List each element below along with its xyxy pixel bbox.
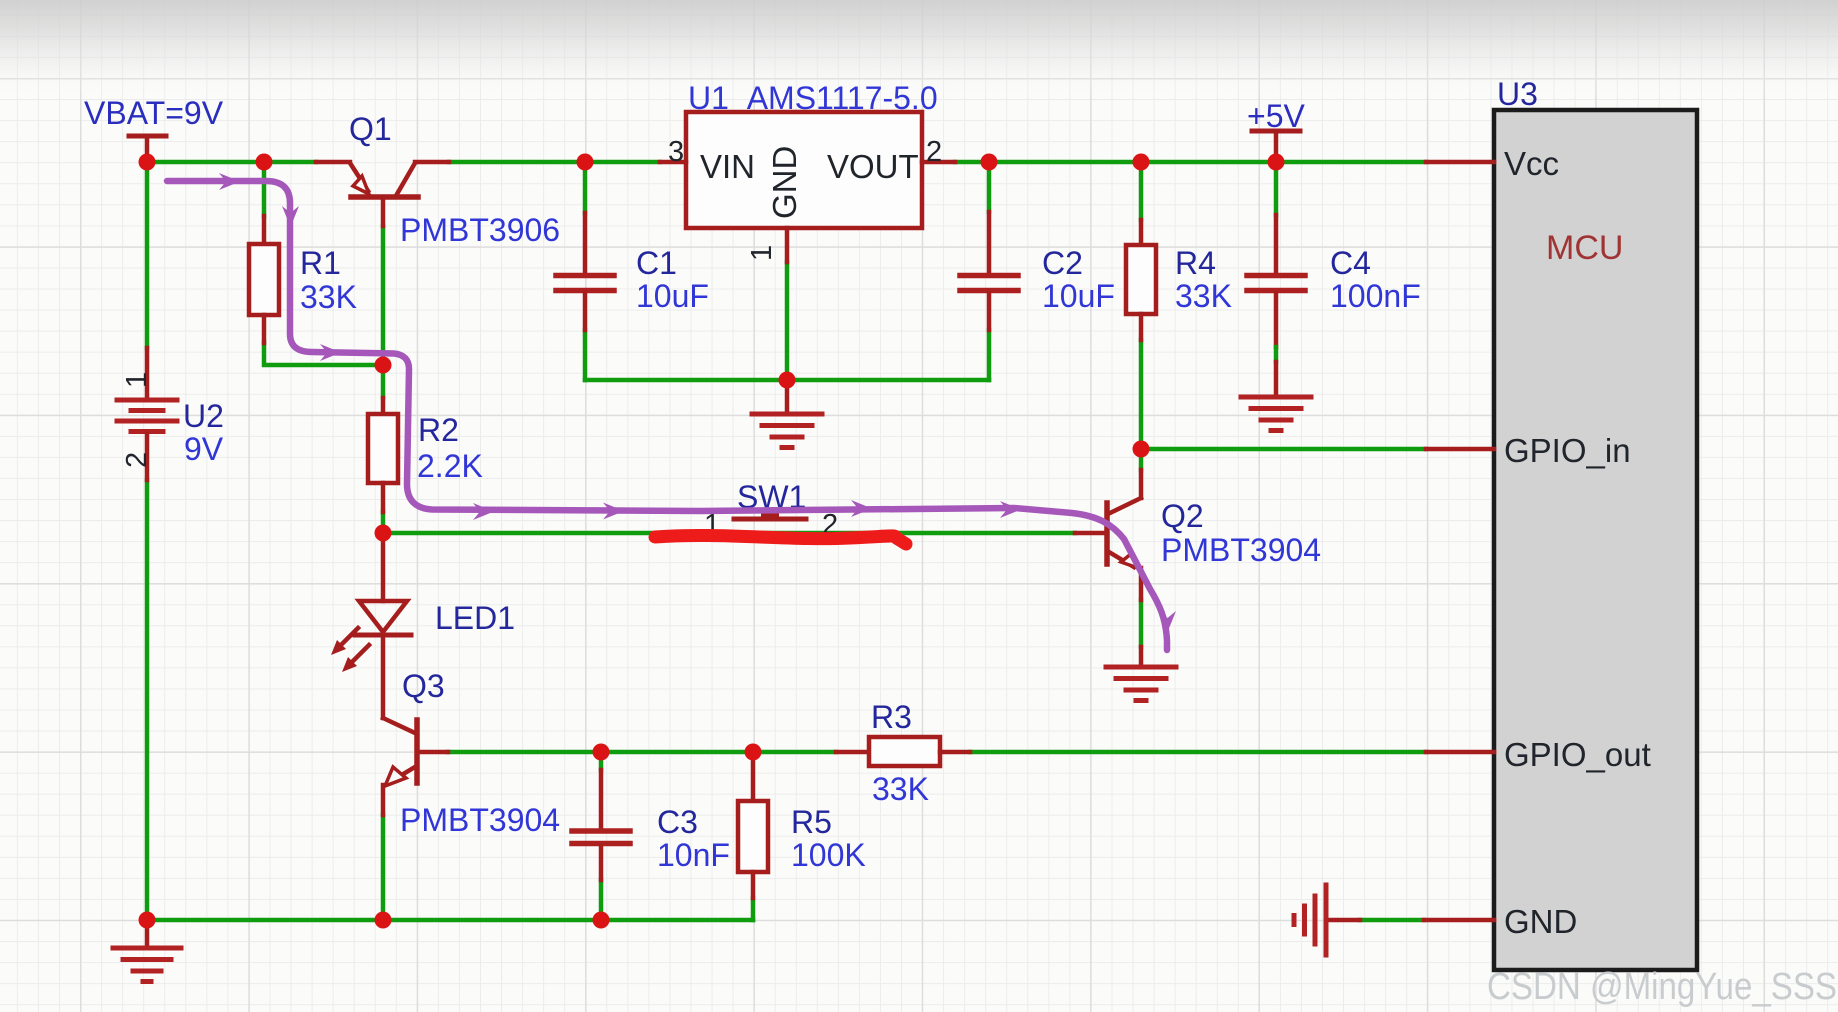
MCU U3 box xyxy=(1494,110,1697,970)
junction R5 top xyxy=(745,744,762,761)
pin GPIO_in stub xyxy=(1426,447,1494,452)
svg-text:GND: GND xyxy=(766,146,803,219)
svg-text:CSDN @MingYue_SSS: CSDN @MingYue_SSS xyxy=(1487,966,1837,1008)
junction +5V xyxy=(1268,154,1285,171)
svg-text:9V: 9V xyxy=(184,431,224,467)
svg-text:R2: R2 xyxy=(418,412,459,448)
svg-text:1: 1 xyxy=(121,372,153,388)
svg-text:10uF: 10uF xyxy=(1042,278,1115,314)
power symbol +5V bar xyxy=(1252,131,1300,160)
svg-text:33K: 33K xyxy=(1175,278,1232,314)
junction Q3 emitter rail xyxy=(375,912,392,929)
svg-text:R1: R1 xyxy=(300,245,341,281)
wire Q2 collector top xyxy=(1139,449,1144,470)
svg-text:2.2K: 2.2K xyxy=(417,448,483,484)
wire R1 bottom L to node A xyxy=(264,343,383,365)
svg-text:C2: C2 xyxy=(1042,245,1083,281)
purple arrowhead 2 xyxy=(282,206,299,227)
svg-text:3: 3 xyxy=(668,136,684,168)
wire MCU GND to ground xyxy=(1360,918,1424,923)
pin Vcc stub xyxy=(1426,160,1494,165)
junction R1 top xyxy=(256,154,273,171)
wire Q1 collector to VIN node xyxy=(449,160,660,165)
svg-text:C3: C3 xyxy=(657,804,698,840)
switch SW1 xyxy=(734,512,806,519)
wire SW1 net node B to Q2 base xyxy=(383,531,1075,536)
ground under U1 xyxy=(752,380,822,448)
pin GND stub xyxy=(1424,918,1494,923)
wire VBAT top rail left xyxy=(147,160,316,165)
junction C2 top xyxy=(981,154,998,171)
wire Q2 emitter mid xyxy=(1139,600,1144,647)
purple arrowhead 3 xyxy=(320,344,341,361)
resistor R1 xyxy=(249,216,279,343)
svg-text:VIN: VIN xyxy=(700,148,755,185)
svg-text:10nF: 10nF xyxy=(657,837,730,873)
junction C3 bottom xyxy=(593,912,610,929)
transistor Q3 PMBT3904 xyxy=(383,718,448,815)
resistor R2 xyxy=(368,398,398,512)
purple arrowhead 4 xyxy=(473,503,494,520)
purple annotation current path xyxy=(167,181,1167,650)
junction U1 gnd xyxy=(779,372,796,389)
junction C1 top xyxy=(577,154,594,171)
purple arrowhead 6 xyxy=(851,500,872,517)
purple arrowhead 1 xyxy=(219,173,240,190)
wire R4 top xyxy=(1139,162,1144,220)
wire C2 top xyxy=(987,162,992,212)
svg-text:+5V: +5V xyxy=(1247,98,1305,134)
junction node A xyxy=(375,357,392,374)
svg-text:2: 2 xyxy=(121,452,153,468)
svg-text:R5: R5 xyxy=(791,804,832,840)
wire C1 top xyxy=(583,162,588,213)
ground at MCU GND rotated xyxy=(1294,885,1360,955)
resistor R3 xyxy=(836,737,970,766)
wire C4 top xyxy=(1274,162,1279,215)
svg-text:Q2: Q2 xyxy=(1161,498,1204,534)
svg-text:GND: GND xyxy=(1504,903,1577,940)
svg-text:Q3: Q3 xyxy=(402,668,445,704)
transistor Q1 PMBT3906 xyxy=(316,162,449,226)
svg-text:2: 2 xyxy=(926,136,942,168)
wire node C to GPIO_in pin xyxy=(1141,447,1426,452)
svg-text:MCU: MCU xyxy=(1546,229,1623,267)
svg-text:U1 AMS1117-5.0: U1 AMS1117-5.0 xyxy=(688,80,938,116)
wire R4 bottom to node C xyxy=(1139,340,1144,449)
wire R1 top xyxy=(262,162,267,216)
wire R2 bottom to node B xyxy=(381,512,386,533)
svg-text:VOUT: VOUT xyxy=(827,148,919,185)
wire C3 top xyxy=(599,752,604,770)
wire C3 bottom xyxy=(599,880,604,920)
wire GPIO_out net left xyxy=(448,750,836,755)
svg-text:33K: 33K xyxy=(300,279,357,315)
svg-text:PMBT3904: PMBT3904 xyxy=(400,802,560,838)
svg-text:GPIO_in: GPIO_in xyxy=(1504,432,1631,469)
svg-text:PMBT3904: PMBT3904 xyxy=(1161,532,1321,568)
junction R4 top xyxy=(1133,154,1150,171)
resistor R4 xyxy=(1126,220,1156,340)
wire Q1 base down to node A xyxy=(381,226,386,365)
wire Q3 emitter to bottom rail xyxy=(381,815,386,920)
ground bottom left xyxy=(113,920,181,982)
pin GPIO_out stub xyxy=(1426,750,1494,755)
power symbol VBAT bar xyxy=(129,136,166,160)
svg-text:C1: C1 xyxy=(636,245,677,281)
ground under Q2 xyxy=(1106,667,1176,701)
resistor R5 xyxy=(738,752,768,898)
wire R5 bottom to rail xyxy=(751,898,756,920)
capacitor C4 xyxy=(1247,215,1305,394)
capacitor C1 xyxy=(556,213,614,330)
LED LED1 xyxy=(331,536,411,718)
capacitor C2 xyxy=(960,212,1018,330)
svg-text:100K: 100K xyxy=(791,837,866,873)
purple arrowhead 7 xyxy=(1000,501,1021,518)
svg-text:VBAT=9V: VBAT=9V xyxy=(84,95,224,131)
regulator U1 AMS1117 box xyxy=(660,112,955,262)
svg-text:1: 1 xyxy=(746,245,778,261)
svg-text:10uF: 10uF xyxy=(636,278,709,314)
svg-text:100nF: 100nF xyxy=(1330,278,1421,314)
wire bottom ground rail xyxy=(147,918,753,923)
svg-text:PMBT3906: PMBT3906 xyxy=(400,212,560,248)
svg-text:Q1: Q1 xyxy=(349,111,392,147)
wire C2 bottom xyxy=(987,330,992,380)
purple arrowhead 8 xyxy=(1159,611,1176,632)
wire C1 bottom xyxy=(583,330,588,380)
battery U2 xyxy=(117,348,177,480)
wire left rail lower xyxy=(145,480,150,920)
purple arrowhead 5 xyxy=(603,503,624,520)
svg-text:33K: 33K xyxy=(872,771,929,807)
wire left rail upper xyxy=(145,162,150,348)
ground under C4 xyxy=(1241,397,1311,431)
junction VBAT xyxy=(139,154,156,171)
wire U1 pin1 down xyxy=(785,262,790,380)
junction node B xyxy=(375,525,392,542)
svg-text:U2: U2 xyxy=(183,398,224,434)
svg-text:U3: U3 xyxy=(1497,76,1538,112)
svg-text:R3: R3 xyxy=(871,699,912,735)
wire R2 top xyxy=(381,365,386,398)
junction C3 top xyxy=(593,744,610,761)
svg-text:R4: R4 xyxy=(1175,245,1216,281)
svg-text:LED1: LED1 xyxy=(435,600,515,636)
svg-text:GPIO_out: GPIO_out xyxy=(1504,736,1651,773)
wire U1 ground rail xyxy=(585,378,989,383)
junction node C xyxy=(1133,441,1150,458)
wire R3 to GPIO_out pin xyxy=(970,750,1426,755)
svg-text:C4: C4 xyxy=(1330,245,1371,281)
svg-text:Vcc: Vcc xyxy=(1504,145,1559,182)
red marker underline at SW1 xyxy=(655,535,906,544)
wire VOUT node to Vcc pin xyxy=(955,160,1426,165)
junction left rail bottom xyxy=(139,912,156,929)
capacitor C3 xyxy=(572,770,630,880)
transistor Q2 PMBT3904 xyxy=(1075,470,1141,665)
